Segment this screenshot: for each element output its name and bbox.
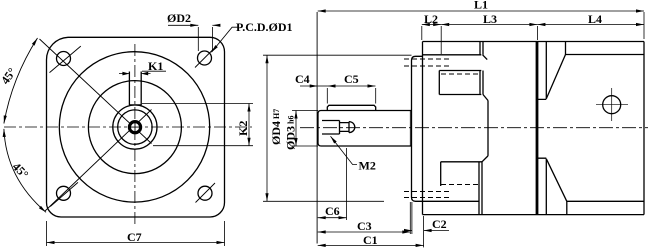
dim C1 line	[318, 244, 424, 246]
cover shoulder top	[566, 42, 645, 55]
dim L2 extensions	[422, 26, 441, 54]
port pad top	[439, 71, 483, 95]
chamfer top pad	[483, 95, 488, 101]
svg-text:45°: 45°	[0, 65, 19, 87]
slash TR	[195, 49, 214, 68]
svg-text:ØD2: ØD2	[167, 11, 191, 25]
svg-text:C6: C6	[325, 204, 340, 218]
svg-text:ØD4 H7: ØD4 H7	[269, 109, 283, 145]
spigot (flange boss)	[412, 56, 423, 201]
svg-text:L3: L3	[483, 12, 497, 26]
bolt hole BL	[57, 186, 71, 200]
keyway slot lines	[129, 72, 141, 106]
port boss top step	[423, 42, 488, 60]
shaft shoulder line	[409, 111, 411, 147]
flange hidden bolt hole top	[404, 59, 450, 66]
port pad top hidden line	[441, 73, 478, 75]
body bottom edge	[423, 214, 645, 216]
dim C6 ext	[346, 148, 348, 220]
flange square outline with rounded corners	[46, 37, 224, 217]
svg-text:C2: C2	[432, 217, 447, 231]
svg-text:K1: K1	[148, 59, 163, 73]
leader M2	[331, 136, 358, 164]
leader PCD OD1	[212, 27, 239, 52]
hub center cross	[129, 121, 141, 133]
mid vertical between ports	[487, 101, 489, 156]
port pad bottom	[441, 162, 482, 215]
dim C3 line	[318, 231, 411, 233]
shaft	[318, 111, 412, 147]
dim K2 extension lines	[142, 104, 253, 146]
bolt hole TR	[198, 51, 212, 65]
C5 extensions	[327, 88, 375, 104]
svg-text:45°: 45°	[10, 160, 32, 182]
dim C1 ext	[423, 216, 425, 247]
main axis centerline	[300, 127, 648, 129]
body top edge	[423, 41, 645, 43]
svg-text:ØD3 h6: ØD3 h6	[284, 116, 298, 150]
slash BR	[196, 183, 216, 203]
bolt hole BR	[198, 186, 212, 200]
cover inner vertical top	[538, 42, 546, 100]
dim L2 line	[422, 24, 441, 26]
dim OD2 extension lines	[198, 27, 212, 51]
shaft boss circle	[113, 105, 157, 149]
center thick circle (hub)	[131, 123, 139, 131]
chamfer bottom pad	[482, 156, 488, 162]
dim L4 line	[537, 24, 644, 26]
dim C3 ext	[410, 202, 412, 234]
dim OD2 line	[168, 24, 198, 26]
cover funnel diagonal bottom	[546, 159, 567, 202]
dim L1 extension left (shared with C4,C6,C3,C1)	[316, 12, 318, 244]
cover funnel diagonal top	[546, 55, 565, 99]
pilot boss circle D4	[59, 52, 209, 202]
body/cover joint thick line	[536, 42, 539, 215]
dim OD4 ext top	[263, 54, 412, 56]
dim L3 line	[441, 24, 537, 26]
K1 shelf	[142, 70, 166, 72]
key on shaft	[327, 105, 375, 110]
dim L1 line	[318, 10, 644, 12]
vertical centerline	[134, 44, 136, 227]
svg-text:C1: C1	[363, 233, 378, 247]
bearing housing circle	[88, 81, 181, 174]
dim K2 line	[248, 104, 250, 146]
cover shoulder bottom	[567, 201, 644, 214]
svg-text:C3: C3	[357, 219, 372, 233]
body front face	[422, 42, 424, 215]
dim C2 line	[404, 230, 412, 232]
cover rear face	[643, 42, 645, 215]
M2 drill end	[349, 122, 355, 133]
svg-text:C7: C7	[127, 230, 142, 244]
svg-text:P.C.D.ØD1: P.C.D.ØD1	[236, 20, 293, 34]
shaft circle D3	[118, 110, 152, 144]
svg-text:L2: L2	[424, 12, 438, 26]
cover bolt crosshair	[596, 88, 628, 121]
dim C5 line	[328, 85, 376, 87]
bolt hole TL	[57, 52, 71, 66]
dim C7 line	[47, 242, 225, 244]
dim OD3 ext	[292, 111, 318, 147]
dim C4/C5	[300, 85, 318, 87]
cover inner vertical bottom	[538, 158, 546, 214]
horizontal centerline	[4, 126, 252, 128]
svg-text:L4: L4	[588, 12, 602, 26]
slash TL	[50, 46, 81, 73]
flange hidden bolt hole bottom	[404, 192, 450, 198]
svg-text:M2: M2	[359, 159, 376, 173]
diagonal through BL hole	[45, 110, 152, 212]
svg-text:K2: K2	[236, 121, 250, 136]
svg-text:C4: C4	[295, 72, 310, 86]
dim K1 arrows	[119, 73, 151, 75]
svg-text:C5: C5	[344, 72, 359, 86]
port pad bottom hidden line	[441, 184, 479, 186]
dim L3/L4 extension	[536, 26, 538, 40]
45 deg arc upper	[4, 38, 38, 124]
cover bolt circle	[603, 96, 621, 114]
dim OD3 line	[295, 111, 297, 147]
45 deg arc lower	[4, 129, 46, 212]
dim OD4 ext bottom	[263, 200, 384, 202]
port boss bottom step	[423, 200, 479, 202]
dim C7 extension lines	[47, 221, 225, 246]
diagonal through TL hole	[40, 39, 152, 144]
svg-text:L1: L1	[474, 0, 488, 12]
dim L1 extension right	[643, 12, 645, 39]
dim OD4 line	[266, 55, 268, 201]
M2 tapped hole	[322, 121, 349, 135]
slash BL	[50, 182, 78, 206]
dim C6 line	[318, 217, 347, 219]
